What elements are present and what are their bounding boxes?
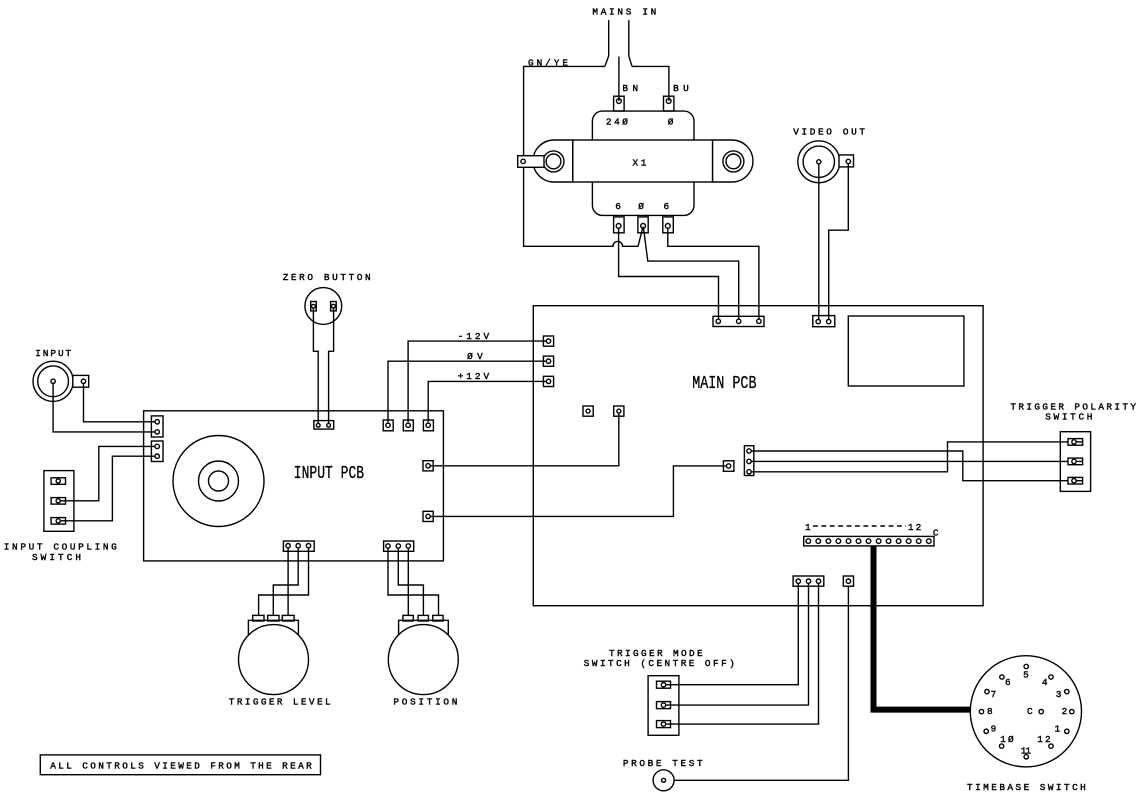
wire GN/YE earth to 0V terminal with hop xyxy=(524,66,644,246)
wire 0V rail xyxy=(388,361,546,422)
input coupling switch terminal 1 xyxy=(51,478,65,485)
pin +12V on main pcb xyxy=(543,376,553,386)
input coupling switch body xyxy=(44,471,74,532)
pad signal out 1 on input pcb xyxy=(423,461,433,471)
timebase contact 6 xyxy=(1000,675,1004,679)
timebase contact 4 xyxy=(1049,675,1053,679)
input pcb shield circles xyxy=(173,436,264,527)
timebase contact 1 xyxy=(1065,729,1069,733)
svg-text:Ø: Ø xyxy=(638,201,644,212)
svg-text:4: 4 xyxy=(1042,677,1048,688)
transformer X1 right mounting hole xyxy=(723,151,744,172)
svg-text:Ø: Ø xyxy=(668,117,674,128)
connector trigger mode 3-pin on main pcb xyxy=(793,576,824,586)
timebase contact 8 xyxy=(979,709,983,713)
wire trigger level pin3 xyxy=(259,548,309,616)
wire video out tab to main pcb xyxy=(829,164,849,320)
svg-text:3: 3 xyxy=(1056,689,1062,700)
transformer X1 earth tab xyxy=(518,156,544,168)
svg-text:5: 5 xyxy=(1023,670,1029,681)
trigger polarity switch terminal 1 xyxy=(1068,439,1083,446)
trigger polarity switch body xyxy=(1060,432,1090,492)
ribbon cable to timebase switch (thick) xyxy=(874,546,971,710)
pin 0V on input pcb xyxy=(383,420,393,431)
wire polarity pin2 to switch terminal 2 xyxy=(751,460,1068,462)
svg-text:INPUT PCB: INPUT PCB xyxy=(294,463,364,484)
trigger mode switch terminal 2 xyxy=(657,702,671,709)
wire polarity pin3 to switch terminal 1 xyxy=(751,442,1068,472)
svg-text:VIDEO OUT: VIDEO OUT xyxy=(793,127,865,138)
connector position 3-pin on input pcb xyxy=(384,541,414,551)
pin +12V on input pcb xyxy=(423,420,433,431)
zero button stem right xyxy=(329,308,334,423)
timebase switch centre contact C xyxy=(1039,709,1043,713)
terminal 6 secondary right xyxy=(663,217,674,233)
potentiometer TRIGGER LEVEL body xyxy=(248,620,298,635)
ribbon dashes xyxy=(813,525,906,527)
svg-text:2: 2 xyxy=(1062,706,1068,717)
svg-text:8: 8 xyxy=(987,706,993,717)
timebase contact 11 xyxy=(1024,755,1028,759)
wire position pin3 xyxy=(407,548,409,615)
connector video out 2-pin on main pcb xyxy=(813,316,835,327)
timebase contact 3 xyxy=(1065,689,1069,693)
wire trigger level pin2 xyxy=(273,548,298,616)
trigger mode switch body xyxy=(648,676,679,736)
wire trigger mode 3 xyxy=(671,583,819,724)
zero button stem left xyxy=(313,308,318,423)
connector input 2-pin on input pcb xyxy=(151,416,163,437)
terminal 0 primary (BU) xyxy=(664,96,674,111)
BNC VIDEO OUT ground tab xyxy=(839,155,854,167)
trigger mode switch terminal 1 xyxy=(657,681,671,688)
wire -12V rail xyxy=(408,341,546,422)
pad input signal on main pcb xyxy=(614,406,624,416)
trigger mode switch terminal 3 xyxy=(657,721,671,728)
svg-text:ZERO BUTTON: ZERO BUTTON xyxy=(283,272,371,283)
wire input centre to input pcb xyxy=(53,383,155,432)
transformer X1 bracket left lobe xyxy=(533,140,573,182)
potentiometer POSITION body xyxy=(399,620,449,635)
pad trigger in on main pcb xyxy=(723,461,734,472)
wire BN live to 240 terminal xyxy=(618,57,620,101)
wire coupling terminal 2 to input pcb xyxy=(66,446,156,500)
pin -12V on main pcb xyxy=(543,336,553,346)
svg-text:MAIN PCB: MAIN PCB xyxy=(692,373,756,394)
potentiometer POSITION can xyxy=(388,625,458,695)
transformer X1 body xyxy=(592,111,694,215)
wire input pcb out 2 to main pcb pad xyxy=(430,466,726,517)
input coupling switch terminal 2 xyxy=(51,498,65,505)
connector trigger level 3-pin on input pcb xyxy=(283,541,314,551)
potentiometer TRIGGER LEVEL can xyxy=(239,625,309,695)
timebase contact 5 xyxy=(1024,664,1028,668)
terminal 0 secondary xyxy=(638,217,648,233)
wire probe test to main pcb pad xyxy=(674,586,848,780)
wire coupling terminal 3 to input pcb xyxy=(66,456,156,521)
zero button terminal left xyxy=(311,302,317,311)
pin 0V on main pcb xyxy=(543,356,553,366)
main pcb inner rectangle xyxy=(848,316,964,386)
connector trigger polarity 3-pin on main pcb xyxy=(744,446,753,476)
wire mains cable right conductor xyxy=(629,20,632,66)
zero button cap xyxy=(305,288,342,325)
connector mains secondary 3-pin on main pcb xyxy=(713,316,764,326)
pin -12V on input pcb xyxy=(403,420,413,431)
trigger polarity switch terminal 2 xyxy=(1068,458,1083,465)
svg-text:11: 11 xyxy=(1021,745,1032,756)
zero button terminal right xyxy=(331,302,337,311)
wire secondary 6 right to main pcb pin 3 xyxy=(668,228,759,319)
wire input pcb out to main pcb pad xyxy=(430,413,619,466)
wire trigger mode 1 xyxy=(671,583,799,684)
BNC connector VIDEO OUT xyxy=(798,141,840,183)
timebase contact 7 xyxy=(985,689,989,693)
BNC INPUT ground tab xyxy=(73,375,89,387)
connector coupling 2-pin on input pcb xyxy=(151,441,163,462)
connector timebase 13-pin on main pcb xyxy=(804,536,934,546)
wire position pin2 xyxy=(398,548,423,615)
wire video out centre to main pcb xyxy=(818,164,820,320)
note box all controls xyxy=(40,755,320,775)
svg-text:24Ø: 24Ø xyxy=(606,117,628,128)
input coupling switch terminal 3 xyxy=(51,518,65,525)
svg-text:9: 9 xyxy=(991,723,997,734)
wire secondary 6 left to main pcb pin 1 xyxy=(619,228,719,319)
svg-text:7: 7 xyxy=(991,689,997,700)
potentiometer POSITION terminals xyxy=(403,615,443,621)
timebase contact 12 xyxy=(1049,744,1053,748)
main pcb outline xyxy=(533,306,983,606)
svg-text:6: 6 xyxy=(615,201,621,212)
svg-text:TIMEBASE SWITCH: TIMEBASE SWITCH xyxy=(967,782,1086,793)
pad signal out 2 on input pcb xyxy=(423,511,433,521)
BNC connector INPUT xyxy=(33,361,73,401)
wire trigger mode 2 xyxy=(671,583,809,705)
svg-text:C: C xyxy=(1027,706,1033,717)
wire input tab to input pcb xyxy=(84,384,156,422)
timebase contact 9 xyxy=(984,729,988,733)
probe test terminal xyxy=(653,770,674,791)
svg-text:INPUT: INPUT xyxy=(35,348,71,359)
wire mains cable left conductor xyxy=(605,20,609,66)
svg-text:6: 6 xyxy=(1005,677,1011,688)
timebase contact 10 xyxy=(999,744,1003,748)
svg-text:1: 1 xyxy=(805,522,811,533)
transformer X1 bracket right lobe xyxy=(713,140,753,182)
terminal 240 (BN) xyxy=(614,96,625,111)
wire BU neutral to 0 terminal xyxy=(632,66,669,101)
pad spare on main pcb xyxy=(583,406,593,416)
svg-text:6: 6 xyxy=(664,201,670,212)
potentiometer TRIGGER LEVEL terminals xyxy=(253,615,294,621)
transformer X1 left mounting hole xyxy=(543,151,564,172)
wire polarity pin1 to switch terminal 3 xyxy=(751,451,1068,481)
terminal 6 secondary left xyxy=(614,217,625,233)
connector zero button 2-pin on input pcb xyxy=(314,421,334,430)
timebase contact 2 xyxy=(1070,709,1074,713)
input pcb outline xyxy=(144,411,444,561)
svg-text:1Ø: 1Ø xyxy=(1000,734,1014,745)
pad probe test on main pcb xyxy=(843,576,853,586)
trigger polarity switch terminal 3 xyxy=(1068,477,1083,484)
wire position pin1 xyxy=(388,548,439,615)
svg-text:1: 1 xyxy=(1055,723,1061,734)
transformer X1 mounting bracket band xyxy=(573,140,713,182)
wire trigger level pin1 xyxy=(287,548,289,616)
timebase switch body xyxy=(970,656,1081,767)
wire +12V rail xyxy=(428,381,546,422)
wire secondary 0 to main pcb pin 2 xyxy=(644,228,739,319)
